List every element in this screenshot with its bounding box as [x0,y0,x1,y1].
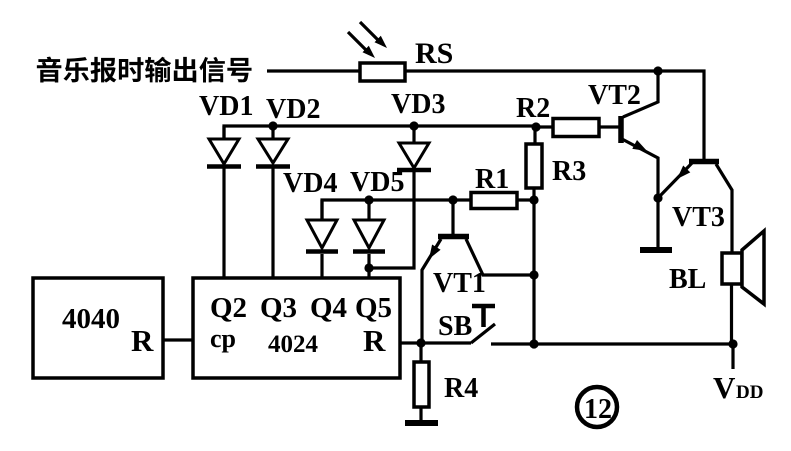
svg-text:Q4: Q4 [310,292,347,324]
svg-text:R: R [131,323,154,358]
svg-text:VD1: VD1 [199,91,253,122]
svg-text:VD5: VD5 [350,167,404,198]
svg-text:Q5: Q5 [355,292,392,324]
svg-text:V: V [713,370,736,405]
svg-text:R3: R3 [552,156,586,187]
svg-text:VD3: VD3 [391,89,445,120]
svg-text:Q2: Q2 [210,292,247,324]
svg-text:R4: R4 [444,373,478,404]
svg-text:Q3: Q3 [260,292,297,324]
svg-text:12: 12 [584,394,612,425]
svg-text:4040: 4040 [62,303,120,335]
svg-text:BL: BL [669,264,706,295]
svg-text:4024: 4024 [268,331,319,358]
svg-text:DD: DD [736,382,763,403]
svg-text:VD4: VD4 [283,168,337,199]
svg-text:VT3: VT3 [672,202,725,233]
svg-text:cp: cp [210,324,236,353]
svg-text:VT2: VT2 [588,80,641,111]
svg-text:VD2: VD2 [266,94,320,125]
svg-text:R2: R2 [516,93,550,124]
svg-text:SB: SB [438,311,472,342]
svg-text:VT1: VT1 [433,268,486,299]
svg-text:RS: RS [415,37,453,70]
svg-text:R1: R1 [475,164,509,195]
svg-text:R: R [363,323,386,358]
